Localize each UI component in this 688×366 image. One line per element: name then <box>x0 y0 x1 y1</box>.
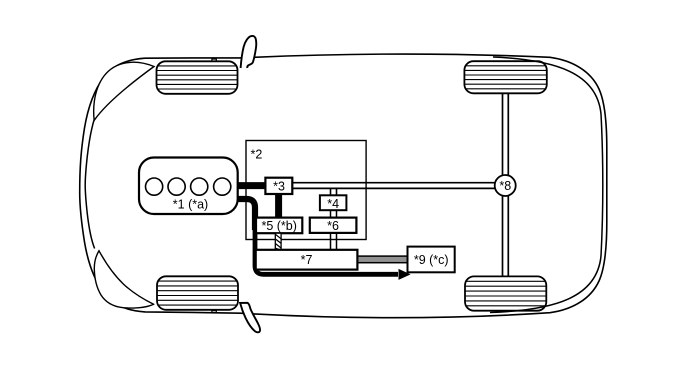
svg-text:*4: *4 <box>327 197 339 211</box>
svg-text:*5 (*b): *5 (*b) <box>261 219 296 233</box>
tick on bottom line <box>212 311 216 313</box>
wheel front-left <box>157 61 238 94</box>
box *6 <box>310 218 357 233</box>
rear axle vertical double line <box>503 94 509 278</box>
double line *4 to *6 <box>331 210 337 217</box>
wheel rear-top <box>464 61 546 93</box>
stem double line shaft to *4 <box>331 188 337 195</box>
gray shaft *7 to *9 <box>358 256 408 263</box>
svg-text:*2: *2 <box>251 148 263 162</box>
box *5 <box>256 218 302 234</box>
svg-text:*9 (*c): *9 (*c) <box>414 253 449 267</box>
fuel door tick on top line <box>212 59 216 61</box>
svg-text:*8: *8 <box>499 179 511 193</box>
engine cylinder 3 <box>191 178 208 195</box>
thick line *3 to *5 <box>275 194 282 219</box>
hatched bar *5 to *7 <box>275 233 281 250</box>
mirror top <box>241 36 257 68</box>
car front inner bumper line <box>85 120 94 249</box>
thick line to arrow (lower part) <box>255 229 398 274</box>
svg-text:*3: *3 <box>273 180 285 194</box>
box *4 <box>320 195 347 210</box>
svg-text:*7: *7 <box>301 253 313 267</box>
thick line engine down-around (upper part) <box>236 199 255 230</box>
wheel front-bottom-left <box>157 276 238 310</box>
svg-text:*6: *6 <box>327 219 339 233</box>
engine cylinder 4 <box>214 178 231 195</box>
engine block *1 <box>139 158 238 215</box>
car body outer outline <box>80 54 607 318</box>
wheel rear-bottom <box>465 276 546 310</box>
thick line engine to *3 <box>236 182 266 189</box>
front fender crescent bottom <box>94 251 153 308</box>
engine cylinder 1 <box>146 178 163 195</box>
box *2 <box>246 141 366 240</box>
box *7 <box>256 250 358 270</box>
driveshaft horizontal double line *3 to *8 <box>292 183 500 189</box>
engine cylinder 2 <box>168 178 185 195</box>
car rear inner bumper line <box>490 57 603 313</box>
double line *6 to *7 <box>331 233 337 250</box>
arrowhead <box>399 269 411 280</box>
node *8 circle <box>495 175 516 196</box>
svg-text:*1 (*a): *1 (*a) <box>173 197 208 211</box>
box *3 <box>265 178 292 194</box>
front fender crescent top <box>94 62 154 120</box>
box *9 <box>408 247 455 273</box>
mirror bottom <box>240 303 260 333</box>
